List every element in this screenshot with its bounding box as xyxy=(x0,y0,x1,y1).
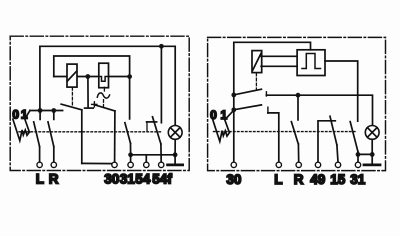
switch lever R xyxy=(48,122,54,147)
relay coil K1 (rectangle with diagonal) xyxy=(67,64,77,87)
wire to terminal 30 xyxy=(82,162,113,164)
mechanical coupling dotted line xyxy=(19,131,161,133)
terminal 31 (right) xyxy=(355,162,360,167)
wire coil to pulse unit (lower) xyxy=(261,65,297,67)
terminal 30 xyxy=(112,162,117,167)
svg-text:30: 30 xyxy=(104,172,119,187)
svg-text:15: 15 xyxy=(330,172,346,187)
wire lever to terminal 15 xyxy=(337,145,338,162)
contact lever 31 (driven by pulse unit) xyxy=(350,122,358,152)
relay armature lever 1 (to terminal 30) xyxy=(61,104,82,110)
svg-text:0: 0 xyxy=(210,108,217,122)
mechanical coupling dotted line (right) xyxy=(214,131,357,133)
switch lever 15-49 xyxy=(330,116,337,145)
wire pulse unit output xyxy=(325,61,358,121)
svg-text:54: 54 xyxy=(135,172,151,187)
feed bus wire (switch common) xyxy=(30,110,63,112)
coil interconnect wire (horizontal through coils) xyxy=(54,76,130,78)
wire fixed contact to terminal L xyxy=(268,113,279,162)
svg-text:R: R xyxy=(294,172,304,187)
terminal 49 xyxy=(315,162,320,167)
node B (junction at coil loop right, x=129.6) xyxy=(127,74,132,79)
svg-text:1: 1 xyxy=(21,107,28,121)
svg-text:54f: 54f xyxy=(152,172,172,187)
node 31 junction xyxy=(128,152,133,157)
fixed contact bar xyxy=(85,107,94,109)
ground (right) xyxy=(364,163,380,166)
fixed stub for R switch xyxy=(297,95,299,120)
wire from top rail down to 54f fixed contact xyxy=(160,46,162,122)
wire to ground (right) xyxy=(371,154,373,163)
svg-text:49: 49 xyxy=(310,172,325,187)
stub to terminal 31 xyxy=(130,155,132,162)
wire lever R to terminal R xyxy=(53,147,55,163)
ground (left) xyxy=(168,163,183,166)
wire 54f lever to terminal 54f xyxy=(160,144,162,162)
supply rail wire (vertical 30 rail and top edge) xyxy=(234,42,311,162)
wire lever to ground node xyxy=(357,152,359,155)
terminal L xyxy=(37,162,42,167)
svg-text:L: L xyxy=(36,172,44,187)
ground node (right) xyxy=(370,152,375,157)
wire lever1 pivot down xyxy=(81,110,83,164)
terminal 54f xyxy=(159,162,164,167)
coil shunt loop wire xyxy=(54,56,130,77)
fixed stub contact L xyxy=(39,111,41,120)
wire fixed contact to lamp feed xyxy=(266,95,372,125)
node A (junction between coils) xyxy=(85,74,90,79)
relay contact lever (lower) xyxy=(234,105,262,110)
thermal element (rectangle with bottom notch) xyxy=(99,63,109,87)
hazard switch actuator (right, lever with spring) xyxy=(213,110,234,141)
wire lever L to terminal L xyxy=(39,147,41,163)
terminal 30 (right) xyxy=(231,162,236,167)
indicator lamp (right) xyxy=(365,125,379,139)
terminal R xyxy=(51,162,56,167)
contact 54f lever xyxy=(153,117,161,144)
relay contact lever 2 with cross tip (to terminal 30) xyxy=(92,102,115,111)
wire to ground xyxy=(174,155,176,164)
svg-text:L: L xyxy=(274,172,282,187)
mechanical link (dashed) from coil K1 xyxy=(71,88,73,106)
pulse generator unit U1 (box with square-wave symbol) xyxy=(297,50,325,76)
contact 54f fixed bar with drop xyxy=(147,122,157,131)
indicator lamp (left) xyxy=(168,125,182,139)
svg-text:0: 0 xyxy=(12,107,19,121)
switch lever R (right diagram) xyxy=(291,122,298,144)
svg-text:30: 30 xyxy=(226,172,241,187)
hazard switch actuator (lever with spring) xyxy=(13,111,30,141)
enclosure frame (dash-dot boundary, left unit) xyxy=(10,36,189,170)
contact 54 lever xyxy=(125,123,131,144)
svg-text:1: 1 xyxy=(221,108,228,122)
switch lever L xyxy=(34,122,40,147)
wire lever R to terminal R xyxy=(297,144,299,162)
terminal R (right) xyxy=(296,162,301,167)
wire terminal 49 up and across xyxy=(318,121,335,162)
terminal 54 xyxy=(144,162,149,167)
enclosure frame (dash-dot boundary, right unit) xyxy=(208,37,386,170)
node R feed (right diagram) xyxy=(296,93,301,98)
wire lamp to ground node xyxy=(174,139,176,155)
heater wire squiggle under thermal element xyxy=(97,87,109,106)
wire lever 54 down to node xyxy=(130,143,132,155)
lamp bus wire xyxy=(131,154,176,156)
node on 30 rail (lower) xyxy=(231,107,236,112)
wire from node B down to contact 54 fixed stub xyxy=(129,77,131,119)
svg-text:31: 31 xyxy=(350,172,366,187)
ground bus wire xyxy=(358,153,372,155)
terminal 15 xyxy=(335,162,340,167)
wire lamp to ground node (right) xyxy=(371,139,373,154)
terminal 31 xyxy=(128,162,133,167)
node on top rail feeding 54f contact xyxy=(159,44,164,49)
node R feed xyxy=(51,108,56,113)
wire coil to pulse unit (upper) xyxy=(261,55,297,57)
node on 30 rail (upper) xyxy=(231,93,236,98)
relay contact lever (upper) xyxy=(234,89,262,95)
ground node xyxy=(173,152,178,157)
mechanical link (dashed) from coil K2 xyxy=(255,73,257,89)
stub to terminal 54 xyxy=(145,155,147,162)
wire lever2 down to terminal 30 xyxy=(114,111,116,162)
stub to terminal 31 (right) xyxy=(357,154,359,162)
wire from node A down to fixed contact bar xyxy=(87,77,89,108)
fixed contact tick (lower) xyxy=(267,107,269,113)
svg-text:R: R xyxy=(49,172,59,187)
supply rail wire (left vertical, top edge, right vertical to lamp) xyxy=(40,46,175,125)
node L feed xyxy=(38,108,43,113)
fixed contact tick (upper) xyxy=(265,92,267,96)
node 31 junction (right) xyxy=(356,152,361,157)
relay coil K2 (rectangle with diagonal) xyxy=(252,51,262,73)
terminal L (right) xyxy=(276,162,281,167)
fixed stub contact R xyxy=(53,111,55,120)
svg-text:31: 31 xyxy=(120,172,136,187)
